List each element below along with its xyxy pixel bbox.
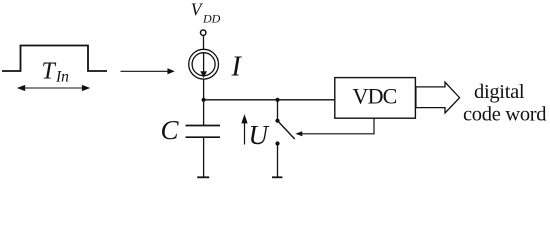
svg-text:T: T (42, 59, 57, 85)
label T_In (42, 59, 70, 86)
input pulse waveform (2, 46, 107, 72)
VDD terminal (open circle) (201, 30, 206, 35)
arrow from pulse to current source (121, 69, 174, 73)
node wire to VDC (203, 99, 335, 101)
VDC box U1 (335, 78, 416, 119)
junction node B (switch) (275, 98, 279, 102)
svg-text:V: V (191, 0, 204, 20)
ground bar (capacitor) (197, 176, 209, 178)
wire capacitor to ground (203, 137, 205, 177)
current source I (double circle with down arrow) (189, 49, 219, 79)
ground bar (switch) (272, 176, 282, 178)
svg-text:C: C (161, 115, 180, 145)
svg-text:I: I (231, 52, 243, 83)
wire current source to node (203, 79, 205, 100)
svg-text:VDC: VDC (353, 83, 397, 108)
capacitor C plates (186, 126, 221, 138)
svg-text:digital: digital (474, 81, 525, 103)
junction node A (cap) (202, 98, 206, 102)
voltage arrow U (242, 116, 247, 145)
pulse width double arrow (18, 86, 88, 91)
wire VDD terminal to current source (203, 35, 205, 49)
svg-text:DD: DD (202, 11, 221, 25)
output open arrow (416, 82, 460, 113)
wire node to capacitor (203, 100, 205, 126)
wire switch contact to ground (277, 144, 279, 178)
label V_DD (191, 0, 221, 25)
switch control arrow from VDC (301, 118, 374, 134)
svg-text:In: In (55, 69, 69, 86)
label digital code word (463, 81, 546, 125)
svg-text:U: U (249, 120, 270, 150)
switch lower contact dot (275, 141, 279, 145)
switch pivot dot (275, 119, 279, 123)
wire node to switch pivot (277, 100, 279, 121)
svg-text:code word: code word (463, 103, 546, 125)
switch blade (278, 121, 295, 139)
